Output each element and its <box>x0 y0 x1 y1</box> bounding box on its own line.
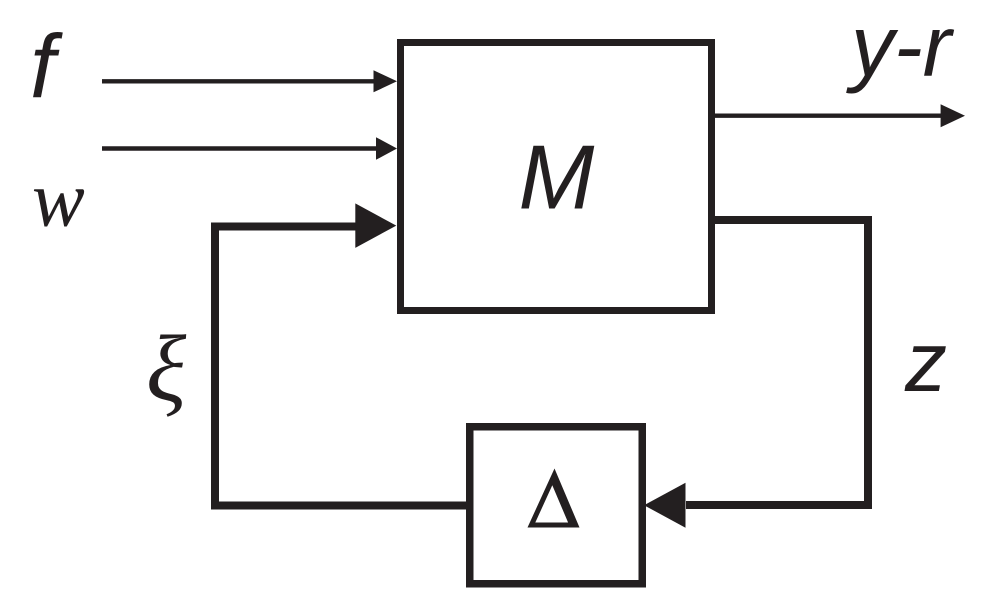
svg-text:z: z <box>904 315 947 409</box>
wire f arrow <box>102 70 397 92</box>
wire y-r output arrow <box>715 104 965 127</box>
label Delta <box>528 469 580 528</box>
wire z feedback (right loop) into Delta with arrowhead <box>644 220 868 528</box>
wire xi feedback (left loop) into M with arrowhead <box>215 203 466 505</box>
svg-text:f: f <box>30 18 63 118</box>
svg-text:w: w <box>32 157 85 244</box>
block M <box>401 43 712 311</box>
svg-text:M: M <box>519 128 595 229</box>
svg-text:ξ: ξ <box>146 317 187 421</box>
wire w arrow <box>102 137 397 160</box>
svg-text:y-r: y-r <box>846 0 955 95</box>
block Delta <box>470 427 643 584</box>
